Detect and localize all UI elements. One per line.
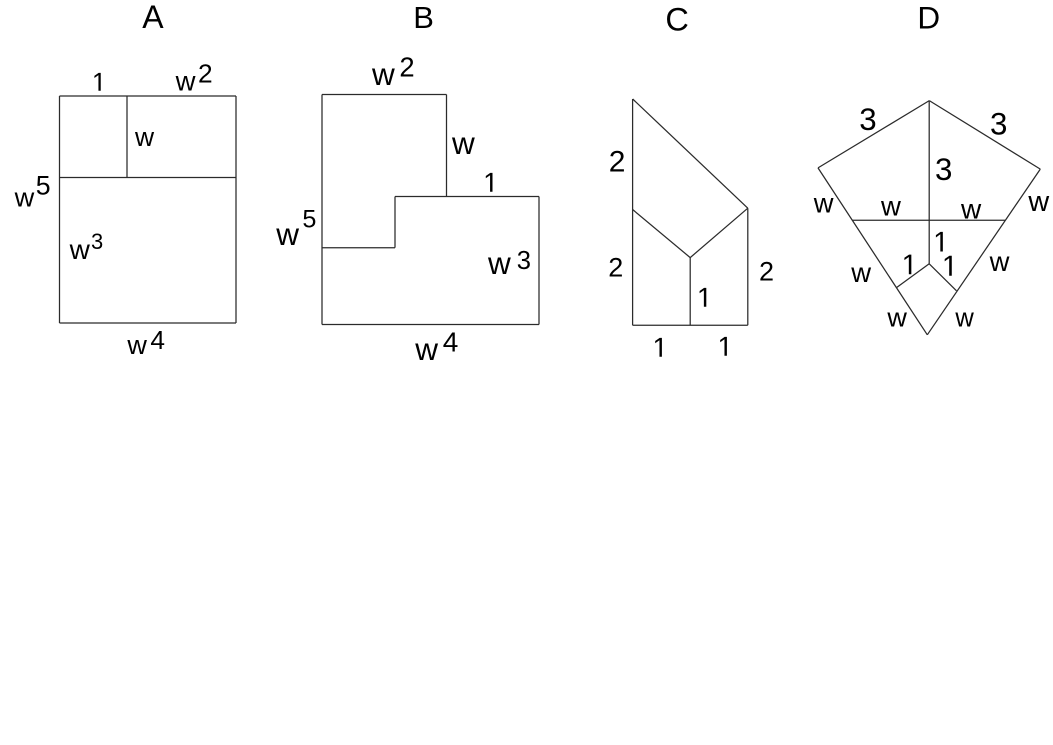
svg-text:3: 3 (990, 106, 1007, 141)
B inner h (322, 247, 395, 249)
label C_1in: 1 (700, 288, 707, 307)
B bottom (322, 324, 539, 326)
A vdiv (126, 96, 128, 178)
svg-text:w: w (134, 122, 155, 152)
svg-text:2: 2 (759, 256, 774, 286)
B top (322, 94, 447, 96)
svg-text:w: w (1027, 186, 1049, 218)
D vertical (928, 101, 930, 264)
B right (538, 197, 540, 325)
svg-text:C: C (665, 2, 688, 38)
svg-text:2: 2 (198, 59, 213, 89)
D quad r (929, 264, 956, 291)
svg-text:D: D (917, 0, 940, 36)
label A_1: 1 (94, 73, 100, 91)
D side tr (929, 101, 1040, 170)
svg-text:w: w (850, 257, 871, 288)
A rect left (59, 96, 61, 323)
svg-text:w: w (275, 216, 299, 252)
svg-text:w: w (175, 65, 196, 96)
C bottom (633, 324, 748, 326)
C diag3 (690, 208, 748, 257)
svg-text:3: 3 (91, 229, 103, 254)
svg-text:A: A (142, 0, 164, 35)
svg-text:4: 4 (150, 325, 165, 355)
A rect right (235, 96, 237, 323)
C left (632, 99, 634, 325)
label D_1ql: 1 (904, 255, 911, 275)
D quad l (897, 264, 930, 288)
svg-text:w: w (813, 187, 834, 218)
B mid horiz (395, 196, 539, 198)
svg-text:w: w (14, 182, 35, 213)
svg-text:w: w (880, 191, 901, 222)
svg-text:B: B (413, 0, 434, 35)
svg-text:w: w (886, 302, 907, 332)
svg-text:w: w (371, 56, 395, 92)
B inner v (394, 197, 396, 248)
D side br (927, 169, 1040, 335)
label C_1bl: 1 (655, 338, 662, 357)
svg-text:2: 2 (608, 252, 623, 282)
C long diag (633, 99, 748, 208)
A hdiv (60, 177, 237, 179)
label D_1qr: 1 (945, 256, 952, 276)
D side tl (818, 101, 929, 168)
C inner v (689, 258, 691, 326)
D horizontal (853, 219, 1006, 221)
svg-text:5: 5 (302, 206, 316, 234)
svg-text:w: w (989, 246, 1010, 277)
svg-text:2: 2 (399, 51, 414, 82)
label C_1br: 1 (720, 337, 727, 356)
svg-text:w: w (954, 305, 974, 333)
B left (321, 95, 323, 325)
svg-text:w: w (451, 125, 475, 161)
A rect bottom (60, 322, 237, 324)
A rect top (60, 95, 237, 97)
svg-text:3: 3 (859, 102, 876, 137)
C diag2 (633, 210, 691, 258)
svg-text:w: w (960, 193, 982, 224)
svg-text:w: w (126, 330, 147, 360)
svg-text:5: 5 (36, 171, 51, 201)
svg-text:w: w (414, 331, 438, 367)
label D_1t: 1 (936, 232, 943, 252)
C right (747, 208, 749, 325)
svg-text:4: 4 (443, 326, 459, 357)
svg-text:3: 3 (517, 247, 531, 275)
svg-text:3: 3 (935, 152, 952, 187)
svg-text:w: w (487, 245, 511, 281)
label B_1: 1 (486, 173, 493, 192)
svg-text:w: w (69, 234, 91, 265)
D side bl (818, 168, 927, 335)
B step right (446, 95, 448, 197)
svg-text:2: 2 (609, 145, 626, 178)
